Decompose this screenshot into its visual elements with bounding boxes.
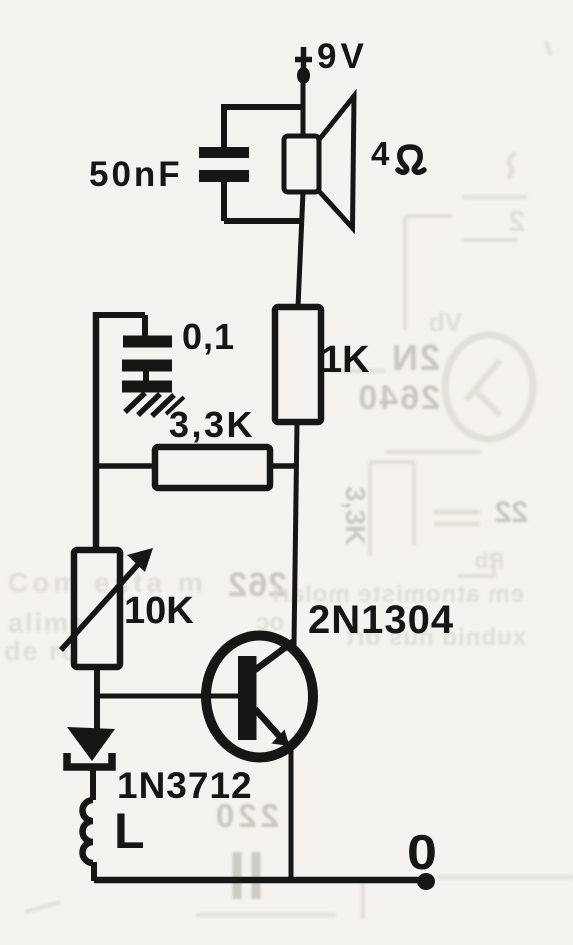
C2 top wire xyxy=(93,312,145,318)
C1 top plate xyxy=(199,147,249,158)
transistor Q1 2N1304 xyxy=(200,598,454,758)
wire left rail (C2 node to R3 top) xyxy=(93,312,100,552)
capacitor C2 0,1 xyxy=(93,315,235,381)
wire Q1 emitter to 0V rail xyxy=(289,750,294,880)
resistor R1 1K xyxy=(275,307,370,422)
svg-text:3,3K: 3,3K xyxy=(169,404,255,445)
wire +9V terminal to speaker top xyxy=(301,80,306,137)
node 0 terminal xyxy=(417,873,435,890)
power terminal +9V xyxy=(295,37,368,84)
svg-text:3,3K: 3,3K xyxy=(340,486,371,545)
C1 bottom lead xyxy=(221,182,227,221)
tunnel diode D1 1N3712 xyxy=(67,727,253,806)
wire R1 bottom to transistor collector xyxy=(294,422,297,645)
C2 bottom plate xyxy=(122,360,172,372)
svg-text:2N1304: 2N1304 xyxy=(308,598,454,642)
Q1 collector line xyxy=(255,641,294,670)
wire speaker bottom to R1 top xyxy=(298,192,303,307)
svg-text:Rb: Rb xyxy=(475,548,504,573)
svg-text:50nF: 50nF xyxy=(89,155,183,194)
svg-text:2N: 2N xyxy=(390,337,440,378)
inductor L1 xyxy=(83,800,145,881)
C2 top lead xyxy=(142,315,148,336)
D1 anode triangle xyxy=(67,727,115,761)
wire R3 bottom to diode D1 anode xyxy=(94,667,100,730)
svg-text:22: 22 xyxy=(495,496,528,529)
C2 bottom lead xyxy=(143,371,149,381)
C1 bottom plate xyxy=(199,170,249,182)
svg-text:Vb: Vb xyxy=(429,307,462,337)
svg-text:0,1: 0,1 xyxy=(182,316,235,357)
svg-text:10K: 10K xyxy=(124,590,194,632)
svg-text:2640: 2640 xyxy=(356,379,440,417)
speaker LS1 xyxy=(284,96,424,228)
svg-text:1K: 1K xyxy=(321,339,370,381)
wire L1 bottom to 0V rail xyxy=(91,862,97,881)
capacitor C1 50nF xyxy=(89,129,249,221)
ground xyxy=(122,387,184,417)
Q1 emitter line xyxy=(255,709,281,738)
Q1 base lead inside circle xyxy=(200,694,240,699)
wire R2 left lead to left rail xyxy=(97,463,155,469)
wire C1 bottom to speaker bottom node xyxy=(224,218,303,224)
svg-text:L: L xyxy=(114,803,145,859)
C1 top lead xyxy=(221,129,227,147)
svg-text:2: 2 xyxy=(508,205,525,238)
wire R2 right lead to collector rail xyxy=(270,463,296,469)
Q1 emitter arrowhead xyxy=(272,730,290,747)
C2 top plate xyxy=(123,336,172,348)
potentiometer R3 10K (variable) xyxy=(61,548,194,667)
wire 0V bottom rail xyxy=(94,877,424,884)
svg-text:0: 0 xyxy=(407,826,437,880)
Q1 base bar xyxy=(238,656,257,740)
svg-text:9V: 9V xyxy=(317,37,368,76)
D1 cathode bracket xyxy=(67,753,112,767)
wire C1 top to +9V node xyxy=(224,107,303,130)
wire base node to transistor base xyxy=(96,694,240,699)
wire D1 cathode to L1 xyxy=(90,770,96,800)
svg-text:4: 4 xyxy=(371,135,390,172)
svg-text:1N3712: 1N3712 xyxy=(117,765,253,806)
resistor R2 3,3K xyxy=(97,404,296,488)
